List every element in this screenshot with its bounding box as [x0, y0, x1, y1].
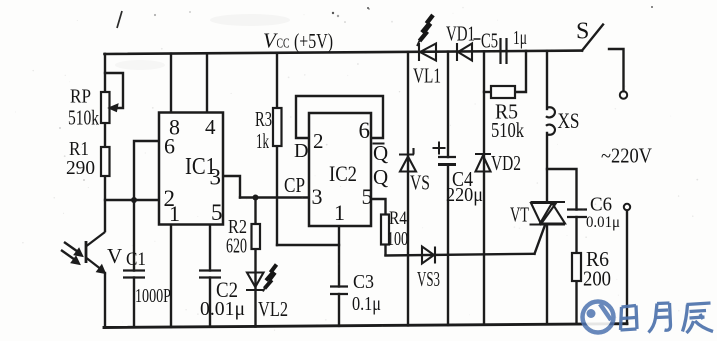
watermark char 日 — [621, 306, 638, 331]
svg-text:CC: CC — [277, 37, 290, 52]
terminal circle top — [620, 91, 627, 98]
Qbar overline — [373, 143, 385, 145]
connector XS — [546, 107, 555, 135]
wire R3 branch — [276, 53, 278, 245]
wire IC1 pin1 — [170, 225, 172, 328]
svg-text:3: 3 — [210, 165, 222, 190]
V light arrows — [64, 242, 78, 252]
C4 plus sign — [433, 142, 446, 155]
resistor R6 — [572, 253, 581, 281]
wire C2 to ground — [209, 278, 211, 327]
svg-text:3: 3 — [312, 184, 323, 209]
wire IC1 pin3 out — [223, 176, 240, 198]
stray pen mark — [117, 11, 122, 28]
svg-text:200: 200 — [583, 267, 611, 291]
capacitor C3 — [330, 287, 348, 295]
wire XS lower to VT — [546, 133, 548, 201]
capacitor C2 — [199, 271, 221, 278]
svg-text:IC2: IC2 — [329, 161, 357, 186]
wire snubber branch — [547, 169, 577, 210]
potentiometer RP wiper arrow — [109, 104, 119, 112]
wire IC1 pin8 — [170, 54, 172, 112]
svg-text:S: S — [576, 19, 589, 45]
wire bottom terminal to ground — [626, 211, 628, 324]
wire IC2 pin5 Q out — [371, 199, 386, 255]
svg-text:1k: 1k — [256, 129, 269, 153]
svg-text:1μ: 1μ — [513, 27, 527, 49]
resistor R4 — [381, 215, 389, 245]
svg-text:0.1μ: 0.1μ — [352, 293, 381, 315]
svg-text:Q: Q — [373, 165, 388, 189]
diode VD2 — [475, 154, 491, 172]
svg-text:510k: 510k — [68, 106, 99, 130]
wire XS upper — [546, 51, 548, 109]
watermark char 辰 — [683, 303, 714, 333]
triac VT — [530, 202, 566, 225]
svg-text:100: 100 — [387, 228, 408, 250]
svg-text:VD2: VD2 — [491, 151, 521, 175]
svg-text:VS: VS — [410, 171, 430, 195]
wire bottom ground rail — [104, 324, 627, 328]
wire IC1 pin5 to C2 — [209, 225, 211, 271]
svg-text:4: 4 — [205, 115, 216, 139]
svg-text:220μ: 220μ — [446, 184, 483, 206]
svg-text:6: 6 — [164, 134, 175, 159]
wire C1 branch lower — [133, 278, 135, 328]
phototransistor V — [61, 232, 106, 274]
resistor R5 — [491, 86, 515, 98]
thyristor VS — [399, 148, 416, 172]
LED VL1 — [419, 43, 436, 61]
wire C3 to ground — [338, 294, 340, 326]
svg-text:V: V — [107, 244, 122, 268]
resistor RP — [101, 92, 110, 123]
svg-text:C5: C5 — [481, 29, 498, 53]
svg-text:0.01μ: 0.01μ — [200, 298, 245, 320]
svg-text:VL1: VL1 — [413, 64, 441, 88]
wire R6 to ground — [575, 281, 577, 324]
svg-text:VS3: VS3 — [417, 267, 440, 291]
svg-text:C1: C1 — [126, 249, 146, 270]
wire switch contact to terminal — [609, 49, 624, 91]
stray dots — [332, 12, 334, 14]
wire R5 left lead — [484, 91, 491, 93]
svg-text:R3: R3 — [255, 107, 272, 131]
watermark char 月 — [649, 303, 671, 333]
wire CP line — [240, 196, 309, 198]
capacitor C1 — [123, 271, 145, 278]
svg-text:~220V: ~220V — [601, 144, 652, 168]
wire R3 to IC2 pin1 — [277, 244, 339, 246]
svg-text:VT: VT — [510, 203, 529, 227]
wire C6 to R6 — [575, 217, 577, 253]
wire C1 branch upper — [133, 200, 135, 271]
svg-text:C6: C6 — [590, 194, 612, 216]
svg-text:510k: 510k — [491, 118, 524, 142]
svg-text:VD1: VD1 — [446, 22, 475, 46]
svg-text:(+5V): (+5V) — [294, 29, 333, 53]
capacitor C4 polarized — [438, 156, 456, 158]
wire IC1 pin4 — [206, 53, 208, 112]
wire VS branch — [407, 52, 409, 326]
VL2 lightning bolts — [265, 265, 277, 289]
wire C4 branch upper — [447, 52, 449, 157]
svg-text:5: 5 — [362, 184, 373, 209]
wire IC1 pin6 — [134, 141, 159, 200]
svg-text:2: 2 — [313, 129, 324, 153]
wire left branch vertical — [104, 54, 106, 231]
wire VT gate — [535, 225, 546, 254]
wire emitter to ground — [104, 273, 106, 328]
wire R5 right lead — [515, 51, 526, 92]
wire VT to ground — [546, 225, 548, 324]
svg-text:R4: R4 — [389, 208, 407, 229]
svg-text:1000P: 1000P — [135, 285, 171, 307]
svg-text:XS: XS — [558, 108, 580, 133]
IC2 box — [309, 113, 371, 226]
svg-text:1: 1 — [334, 200, 345, 225]
IC1 box — [159, 113, 223, 225]
node junction dot A — [131, 197, 137, 203]
terminal circle bottom — [624, 204, 630, 210]
wire C4 branch lower — [447, 165, 449, 326]
svg-text:C3: C3 — [353, 271, 374, 293]
wire IC2 pin1 to C3 — [338, 226, 340, 287]
capacitor C5 — [501, 38, 507, 64]
svg-text:Q: Q — [373, 141, 388, 165]
svg-text:620: 620 — [226, 234, 247, 258]
svg-text:290: 290 — [66, 157, 95, 179]
wire IC1 pin2 — [105, 199, 159, 201]
resistor R1 — [101, 147, 110, 176]
wire IC2 D-Qbar loop — [296, 96, 383, 138]
svg-text:CP: CP — [284, 173, 305, 197]
wire RP wiper loop — [105, 73, 123, 108]
svg-text:6: 6 — [359, 118, 371, 143]
diode VS3 — [422, 247, 435, 264]
wire VD2 branch — [483, 51, 485, 325]
diode VD1 — [457, 43, 472, 61]
wire top Vcc rail — [105, 51, 583, 54]
wire switch S lever — [582, 25, 603, 51]
wire VS3 line — [386, 254, 535, 256]
VL1 lightning bolts — [420, 15, 434, 41]
svg-text:VL2: VL2 — [258, 297, 288, 321]
stray dash mark — [474, 38, 481, 40]
svg-text:D: D — [294, 140, 308, 162]
svg-text:0.01μ: 0.01μ — [586, 214, 620, 231]
wire R2 VL2 branch — [254, 198, 256, 327]
svg-text:RP: RP — [70, 86, 91, 108]
capacitor C6 — [567, 210, 587, 218]
resistor R2 — [252, 224, 261, 249]
svg-text:5: 5 — [211, 200, 223, 225]
node junction dot B — [253, 195, 259, 201]
watermark logo ring — [585, 304, 612, 331]
resistor R3 — [273, 108, 282, 146]
LED VL2 — [246, 273, 265, 291]
svg-text:1: 1 — [169, 201, 180, 226]
